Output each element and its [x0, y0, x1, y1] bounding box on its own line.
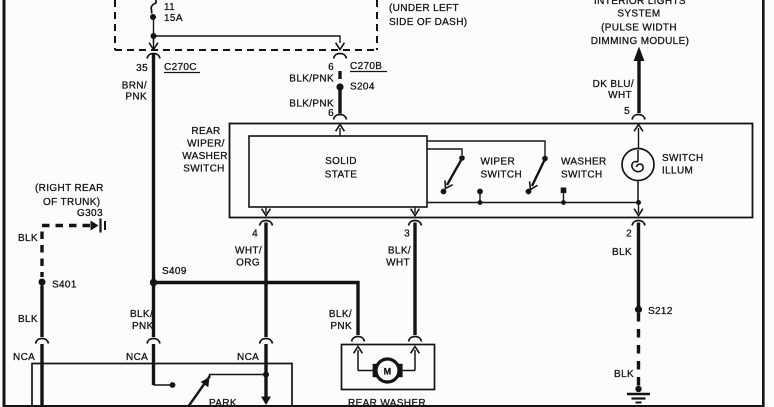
svg-text:BLK: BLK	[612, 247, 632, 258]
svg-text:OF TRUNK): OF TRUNK)	[43, 197, 100, 208]
wire junction to C270B drop	[154, 36, 341, 43]
pin 2 exit arrow	[634, 203, 643, 216]
connector C270C pin 35	[136, 38, 200, 74]
pin 4 exit arrow	[262, 207, 271, 216]
rear wiper motor box (cut off)	[32, 364, 292, 407]
wire right pump entry with up arrow	[403, 347, 420, 371]
wire BRN/PNK pin35 down to S409	[152, 54, 155, 283]
svg-text:(RIGHT REAR: (RIGHT REAR	[35, 183, 104, 194]
svg-text:BRN/: BRN/	[122, 81, 147, 92]
splice S409	[150, 266, 187, 286]
svg-text:S212: S212	[648, 306, 673, 317]
connector NCA right	[237, 339, 273, 364]
svg-text:S204: S204	[350, 82, 375, 93]
label: interior lights system	[591, 0, 690, 47]
connector C270B pin 6	[328, 43, 387, 73]
label BRN/PNK	[122, 81, 147, 103]
label BLK/PNK left	[130, 309, 154, 332]
svg-text:BLK/PNK: BLK/PNK	[289, 74, 334, 85]
wire BLK/PNK S409 down	[152, 284, 155, 337]
wire BLK/WHT pin3 down to washer pump	[413, 223, 416, 336]
svg-text:WASHER: WASHER	[182, 151, 228, 162]
wire stub to washer switch	[427, 141, 545, 156]
splice S204	[336, 82, 374, 93]
svg-text:S409: S409	[162, 266, 187, 277]
svg-text:STATE: STATE	[325, 170, 358, 181]
wire stub to wiper switch	[427, 149, 462, 155]
ground G303	[91, 219, 106, 233]
node rail to lamp	[636, 200, 641, 205]
wire pin6 entry with up arrow	[336, 125, 345, 137]
svg-text:SOLID: SOLID	[325, 156, 357, 167]
page border bottom	[3, 405, 765, 407]
splice S401	[39, 279, 77, 291]
page border left	[3, 0, 6, 407]
svg-text:ORG: ORG	[236, 258, 260, 269]
rear wiper/washer switch box	[230, 124, 753, 218]
svg-text:(UNDER LEFT: (UNDER LEFT	[389, 3, 459, 14]
wire BLK into motor box	[40, 344, 43, 407]
node junction in fuse box	[151, 33, 157, 39]
svg-text:WHT/: WHT/	[235, 246, 262, 257]
label BLK/PNK pump feed	[329, 309, 352, 332]
splice S212	[635, 306, 673, 317]
svg-text:NCA: NCA	[126, 352, 148, 363]
connector pin 2	[632, 221, 645, 226]
svg-text:5: 5	[624, 106, 630, 117]
fuse box (under left side of dash)	[115, 0, 377, 50]
svg-text:G303: G303	[77, 208, 103, 219]
wire fuse to junction	[153, 18, 155, 36]
motor M rear washer pump	[373, 359, 403, 382]
connector NCA middle	[126, 339, 160, 364]
label switch illum	[662, 153, 704, 177]
wire left pump entry with up arrow	[354, 347, 373, 371]
svg-text:BLK: BLK	[614, 369, 634, 380]
common rail inside switch	[427, 202, 639, 204]
label: rear wiper/washer switch	[182, 126, 228, 175]
connector NCA left	[13, 339, 49, 364]
svg-text:2: 2	[626, 229, 632, 240]
svg-text:BLK/: BLK/	[130, 309, 153, 320]
fuse 11 15A	[150, 0, 183, 24]
rear washer pump motor box	[342, 345, 435, 390]
svg-text:BLK: BLK	[18, 233, 38, 244]
label WHT/ORG	[235, 246, 262, 269]
svg-text:PNK: PNK	[330, 321, 352, 332]
svg-text:WIPER/: WIPER/	[187, 139, 225, 150]
wire BLK dashed S212 to ground	[637, 313, 640, 386]
wire WHT/ORG into motor box	[264, 344, 267, 397]
svg-text:NCA: NCA	[237, 352, 259, 363]
pin 3 exit arrow	[411, 207, 420, 216]
svg-text:PNK: PNK	[132, 321, 154, 332]
svg-text:SYSTEM: SYSTEM	[617, 9, 660, 20]
svg-text:35: 35	[136, 63, 148, 74]
wiper switch SW1	[441, 155, 483, 205]
switch illumination lamp	[622, 149, 654, 203]
svg-text:ILLUM: ILLUM	[662, 166, 693, 177]
ground at right	[627, 386, 650, 403]
label (RIGHT REAR OF TRUNK)	[35, 183, 104, 219]
svg-text:15A: 15A	[164, 13, 183, 24]
wire junction down to pin 35	[153, 36, 155, 43]
svg-text:C270C: C270C	[164, 62, 197, 73]
connector pin 4	[260, 221, 273, 226]
arrow feed to interior lights system	[634, 47, 645, 114]
svg-text:SWITCH: SWITCH	[183, 164, 225, 175]
wire BLK/PNK into motor box to park contact	[154, 344, 176, 388]
wire BLK dashed from G303	[42, 226, 90, 278]
svg-text:PNK: PNK	[125, 92, 147, 103]
connector pin 5 at switch top	[632, 115, 645, 120]
svg-text:NCA: NCA	[13, 352, 35, 363]
wire BLK/PNK S204 to switch pin 6	[338, 90, 341, 114]
svg-text:S401: S401	[52, 280, 77, 291]
connector washer pump left	[352, 337, 365, 342]
connector washer pump right	[409, 337, 422, 342]
wire WHT/ORG pin4 down	[264, 223, 267, 338]
svg-text:WHT: WHT	[608, 90, 632, 101]
wire pin5 entry with up arrow	[634, 125, 643, 150]
svg-text:BLK: BLK	[18, 314, 38, 325]
svg-text:3: 3	[404, 229, 410, 240]
label washer switch	[561, 157, 607, 181]
solid state module U1	[249, 136, 427, 207]
wire S409 branch to washer pump	[154, 283, 359, 336]
label DK BLU/WHT	[593, 79, 634, 101]
wire BLK/PNK dashed to S204	[338, 71, 341, 79]
label: (UNDER LEFT SIDE OF DASH)	[389, 3, 467, 28]
label wiper switch	[481, 157, 523, 181]
svg-text:4: 4	[252, 229, 258, 240]
svg-text:DIMMING MODULE): DIMMING MODULE)	[591, 36, 690, 47]
svg-text:6: 6	[328, 62, 334, 73]
svg-text:SWITCH: SWITCH	[662, 153, 704, 164]
svg-text:M: M	[384, 367, 392, 377]
svg-text:DK BLU/: DK BLU/	[593, 79, 634, 90]
page border right	[762, 0, 765, 407]
svg-text:REAR: REAR	[191, 126, 220, 137]
svg-text:WASHER: WASHER	[561, 157, 607, 168]
svg-text:11: 11	[164, 2, 175, 13]
label BLK/WHT	[386, 246, 411, 269]
washer switch SW2	[526, 156, 567, 205]
node park switch junction	[263, 372, 269, 378]
wire BLK pin2 down to S212	[637, 223, 640, 308]
connector pin 3	[409, 221, 422, 226]
svg-text:6: 6	[328, 108, 334, 119]
wire BLK S401 down	[40, 286, 43, 338]
svg-text:WHT: WHT	[386, 258, 410, 269]
svg-text:SIDE OF DASH): SIDE OF DASH)	[389, 17, 467, 28]
svg-text:BLK/: BLK/	[388, 246, 411, 257]
svg-text:SWITCH: SWITCH	[561, 170, 603, 181]
svg-text:BLK/: BLK/	[329, 309, 352, 320]
svg-text:(PULSE WIDTH: (PULSE WIDTH	[601, 23, 677, 34]
park switch	[188, 375, 266, 407]
svg-text:C270B: C270B	[350, 61, 382, 72]
svg-text:WIPER: WIPER	[481, 157, 516, 168]
connector pin 6 at switch top	[334, 115, 347, 120]
svg-text:SWITCH: SWITCH	[481, 170, 523, 181]
svg-text:INTERIOR LIGHTS: INTERIOR LIGHTS	[594, 0, 686, 7]
arrow WHT/ORG continues down	[261, 397, 271, 406]
